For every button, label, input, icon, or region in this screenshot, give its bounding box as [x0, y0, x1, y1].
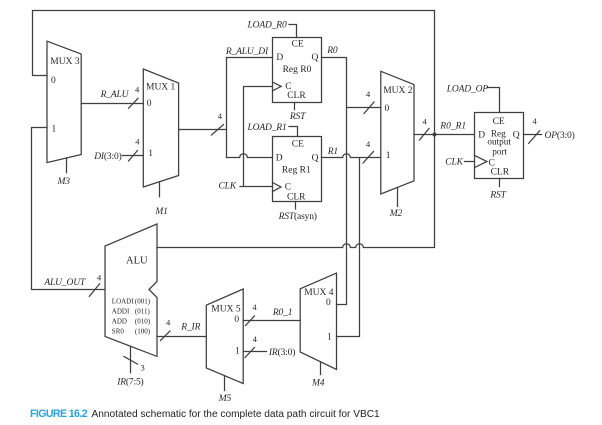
svg-text:MUX 4: MUX 4 — [304, 288, 334, 298]
svg-text:Q: Q — [513, 131, 520, 141]
svg-text:DI(3:0): DI(3:0) — [93, 151, 121, 162]
svg-text:port: port — [492, 147, 507, 157]
svg-text:0: 0 — [385, 104, 390, 114]
svg-text:CLR: CLR — [491, 167, 510, 177]
svg-text:LOAD_R0: LOAD_R0 — [247, 20, 287, 30]
svg-text:4: 4 — [218, 111, 223, 121]
svg-text:CE: CE — [292, 40, 304, 50]
svg-text:R0: R0 — [326, 46, 338, 56]
svg-text:4: 4 — [252, 302, 257, 312]
svg-text:4: 4 — [253, 334, 258, 344]
svg-text:LOAD_R1: LOAD_R1 — [247, 123, 287, 133]
svg-text:D: D — [478, 131, 485, 141]
svg-text:(011): (011) — [135, 308, 151, 316]
svg-text:1: 1 — [327, 333, 332, 343]
svg-text:1: 1 — [235, 347, 240, 357]
svg-text:1: 1 — [148, 149, 153, 159]
svg-text:OP(3:0): OP(3:0) — [545, 130, 575, 141]
svg-text:Q: Q — [312, 153, 319, 163]
svg-text:IR(3:0): IR(3:0) — [268, 347, 295, 358]
svg-text:IR(7:5): IR(7:5) — [116, 377, 143, 388]
svg-text:R0_R1: R0_R1 — [439, 122, 466, 132]
svg-text:R1: R1 — [327, 147, 338, 157]
svg-text:Reg R0: Reg R0 — [283, 65, 312, 75]
svg-text:MUX 1: MUX 1 — [146, 83, 176, 93]
svg-text:CLR: CLR — [287, 192, 306, 202]
svg-text:3: 3 — [141, 363, 145, 373]
svg-text:1: 1 — [386, 151, 391, 161]
svg-text:ALU: ALU — [126, 256, 148, 267]
svg-text:M5: M5 — [218, 394, 232, 404]
svg-text:Annotated schematic for the co: Annotated schematic for the complete dat… — [92, 409, 381, 420]
svg-text:Q: Q — [312, 53, 319, 63]
svg-text:R0_1: R0_1 — [272, 308, 292, 318]
svg-text:ADDI: ADDI — [112, 308, 130, 316]
svg-text:CLR: CLR — [287, 91, 306, 101]
svg-text:output: output — [487, 137, 511, 147]
svg-text:4: 4 — [135, 137, 140, 147]
svg-text:CE: CE — [493, 117, 505, 127]
svg-text:C: C — [285, 183, 291, 193]
svg-text:RST: RST — [289, 112, 306, 122]
svg-text:FIGURE 16.2: FIGURE 16.2 — [30, 408, 88, 420]
svg-text:MUX 2: MUX 2 — [383, 86, 413, 96]
svg-text:M3: M3 — [57, 177, 71, 187]
svg-text:(100): (100) — [135, 327, 151, 335]
svg-text:0: 0 — [234, 315, 239, 325]
svg-text:LOADI: LOADI — [112, 298, 134, 306]
svg-text:MUX 3: MUX 3 — [50, 57, 80, 67]
svg-text:1: 1 — [52, 125, 57, 135]
svg-text:R_IR: R_IR — [180, 323, 200, 333]
svg-text:ALU_OUT: ALU_OUT — [43, 278, 86, 288]
svg-text:Reg R1: Reg R1 — [282, 166, 311, 176]
svg-text:MUX 5: MUX 5 — [211, 305, 241, 315]
svg-text:M2: M2 — [389, 209, 403, 219]
svg-text:0: 0 — [326, 298, 331, 308]
svg-text:RST(asyn): RST(asyn) — [278, 211, 317, 222]
svg-text:D: D — [276, 53, 283, 63]
svg-text:M4: M4 — [311, 379, 325, 389]
svg-text:R_ALU_DI: R_ALU_DI — [225, 47, 269, 57]
svg-text:0: 0 — [147, 99, 152, 109]
svg-text:R_ALU: R_ALU — [100, 90, 130, 100]
svg-text:M1: M1 — [154, 207, 167, 217]
svg-text:SR0: SR0 — [112, 327, 125, 335]
svg-text:CLK: CLK — [219, 181, 237, 191]
svg-text:LOAD_OP: LOAD_OP — [446, 85, 489, 95]
svg-text:CE: CE — [292, 140, 304, 150]
svg-text:(010): (010) — [135, 317, 151, 325]
svg-text:ADD: ADD — [112, 317, 127, 325]
svg-text:RST: RST — [489, 190, 506, 200]
svg-text:(001): (001) — [135, 298, 151, 306]
svg-text:0: 0 — [51, 76, 56, 86]
svg-text:CLK: CLK — [445, 158, 463, 168]
svg-text:D: D — [276, 153, 283, 163]
